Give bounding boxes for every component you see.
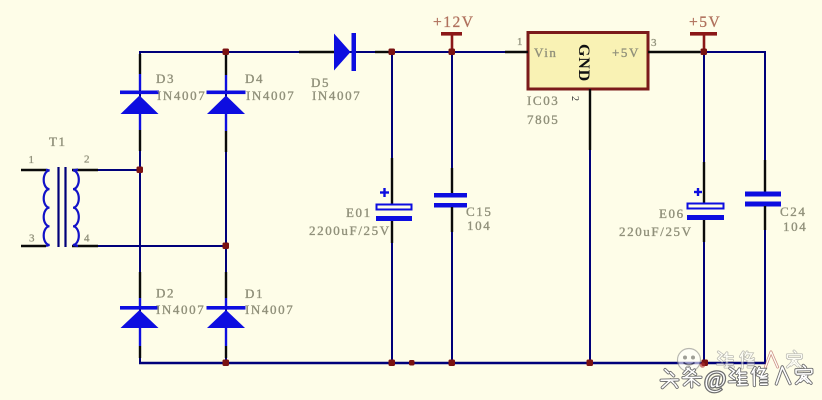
wire E01 branch — [391, 52, 393, 364]
label C15 — [466, 204, 492, 219]
label +12V — [433, 14, 474, 31]
wire transformer pin4 to bridge — [72, 245, 226, 247]
svg-text:IN4007: IN4007 — [312, 88, 361, 103]
svg-text:IN4007: IN4007 — [157, 88, 206, 103]
power symbol +12V — [441, 32, 462, 52]
diode D3 — [120, 54, 159, 151]
junction node bottom C15 (452,363) — [449, 360, 456, 367]
IC pin name Vin — [534, 45, 558, 60]
svg-text:IN4007: IN4007 — [246, 88, 295, 103]
watermark (ghost logo + 维修人家 text) — [678, 349, 802, 372]
svg-text:4: 4 — [84, 233, 90, 245]
wire IC pin3 to +5V and C24 corner — [648, 51, 766, 192]
svg-text:E06: E06 — [659, 206, 685, 221]
wire ground bus bottom — [139, 362, 766, 365]
label C24 value 104 — [783, 219, 807, 234]
wire top bus — [139, 51, 528, 53]
svg-text:IN4007: IN4007 — [245, 302, 294, 317]
diode D4 — [207, 55, 246, 152]
label E06 — [659, 206, 685, 221]
svg-text:T1: T1 — [49, 134, 67, 149]
label D3 value IN4007 — [157, 88, 206, 103]
label T1 — [49, 134, 67, 149]
capacitor C15 — [434, 168, 467, 232]
IC pin name +5V — [612, 45, 640, 60]
svg-text:220uF/25V: 220uF/25V — [619, 224, 693, 239]
label +5V — [689, 14, 721, 31]
svg-text:Vin: Vin — [534, 45, 558, 60]
svg-text:GND: GND — [575, 44, 592, 82]
junction node +12V / C15 (452,52) — [449, 49, 456, 56]
diode D2 — [120, 272, 159, 358]
svg-text:D1: D1 — [245, 286, 264, 301]
svg-text:D2: D2 — [156, 286, 175, 301]
diode D1 — [207, 272, 246, 358]
IC pin 1 number — [517, 36, 523, 48]
junction node bottom D1 (226,363) — [223, 360, 230, 367]
wire C15 branch — [451, 52, 453, 364]
svg-text:2: 2 — [569, 96, 580, 101]
svg-text:2200uF/25V: 2200uF/25V — [309, 223, 391, 238]
junction node pin2 (140,170) — [137, 167, 144, 174]
label E01 value 2200uF/25V — [309, 223, 391, 238]
svg-text:IN4007: IN4007 — [156, 302, 205, 317]
label D2 — [156, 286, 175, 301]
svg-text:1: 1 — [29, 154, 35, 166]
pin 4 label — [84, 233, 90, 245]
wire E06 branch — [703, 52, 705, 364]
IC pin name GND (rotated) — [575, 44, 592, 82]
pin 2 label — [84, 154, 90, 166]
junction node +5V / E06 (704,52) — [701, 49, 708, 56]
svg-text:2: 2 — [84, 154, 90, 166]
junction node bottom GND (590,363) — [587, 360, 594, 367]
junction node bottom E01 (392,363) — [389, 360, 396, 367]
svg-text:@: @ — [704, 367, 727, 393]
label D1 — [245, 286, 264, 301]
svg-text:C24: C24 — [780, 204, 806, 219]
label D1 value IN4007 — [245, 302, 294, 317]
junction node top bridge (226,51) — [223, 49, 230, 56]
label D5 — [311, 75, 330, 90]
diode D5 — [299, 33, 390, 71]
label D2 value IN4007 — [156, 302, 205, 317]
transformer T1 — [21, 167, 98, 247]
label D5 value IN4007 — [312, 88, 361, 103]
svg-text:+5V: +5V — [689, 14, 721, 31]
svg-text:D3: D3 — [156, 71, 175, 86]
capacitor E01 — [376, 158, 412, 243]
wire C24 lower lead — [764, 207, 766, 364]
wire IC GND pin down — [589, 89, 591, 363]
junction node bottom E06 (705,363) — [702, 360, 709, 367]
svg-text:104: 104 — [783, 219, 807, 234]
svg-text:IC03: IC03 — [527, 93, 559, 108]
svg-text:7805: 7805 — [527, 112, 559, 127]
pin 1 label — [29, 154, 35, 166]
svg-text:1: 1 — [517, 36, 523, 48]
svg-text:+5V: +5V — [612, 45, 640, 60]
svg-text:104: 104 — [467, 218, 491, 233]
label 7805 — [527, 112, 559, 127]
wire left vertical (D3/D2 branch) — [139, 51, 141, 364]
svg-text:D4: D4 — [245, 71, 264, 86]
junction node pin4 (226,246) — [223, 243, 230, 250]
junction node bottom stray (412,363) — [409, 360, 415, 366]
label D4 — [245, 71, 264, 86]
svg-text:E01: E01 — [346, 205, 372, 220]
IC pin 2 number (rotated) — [569, 96, 580, 101]
label D3 — [156, 71, 175, 86]
wire bridge right vertical (D4/D1 branch) — [225, 51, 227, 364]
svg-text:C15: C15 — [466, 204, 492, 219]
svg-text:+12V: +12V — [433, 14, 474, 31]
label D4 value IN4007 — [246, 88, 295, 103]
capacitor C24 — [745, 160, 781, 230]
pin 3 label — [29, 233, 35, 245]
capacitor E06 — [687, 162, 724, 242]
label C15 value 104 — [467, 218, 491, 233]
IC voltage regulator IC03 7805 — [505, 33, 700, 151]
power symbol +5V — [690, 32, 717, 52]
svg-text:3: 3 — [651, 37, 657, 49]
label C24 — [780, 204, 806, 219]
watermark main text 头条@维修人家 — [661, 365, 812, 394]
wire transformer pin2 to bridge — [72, 169, 140, 171]
IC pin 3 number — [651, 37, 657, 49]
label IC03 — [527, 93, 559, 108]
label E01 — [346, 205, 372, 220]
svg-text:3: 3 — [29, 233, 35, 245]
junction node E01 top (392,51) — [389, 49, 396, 56]
label E06 value 220uF/25V — [619, 224, 693, 239]
